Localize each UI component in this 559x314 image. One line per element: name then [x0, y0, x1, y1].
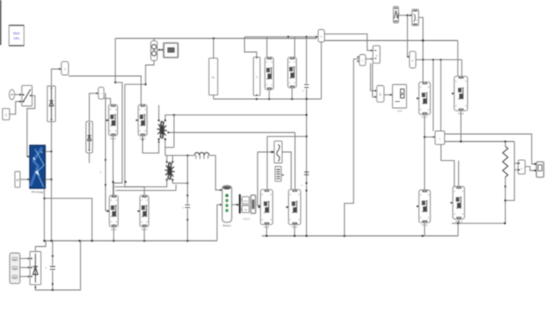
wire bus to battery minus — [217, 205, 222, 241]
wire into CS1 — [258, 151, 275, 153]
wire Q4 gate feed — [125, 187, 145, 196]
gate driver block N1 — [98, 87, 104, 99]
wire tap to comparator CMP2 — [407, 15, 409, 57]
wire K1 to switch — [10, 102, 22, 115]
transformer TR1 — [157, 121, 167, 138]
wire Q1 drain to Q3 column — [112, 136, 114, 196]
wire L1 to battery plus — [216, 155, 223, 190]
wire D1 top to measurement VM1 — [51, 69, 61, 86]
wire Q3 source to bus — [113, 227, 115, 241]
wire Q7 source to bus — [294, 225, 296, 236]
voltage measurement VM2 — [518, 160, 525, 174]
svg-text:Item: Item — [13, 32, 20, 36]
wire Q4 source to bus — [143, 227, 145, 241]
wire GL1 to scope SV1 — [384, 94, 392, 96]
comparator block CMP2 — [410, 51, 416, 68]
wire CS1 out to Q7 — [282, 152, 291, 190]
current measurement CM1 — [435, 131, 445, 144]
diode D2 block (PV branch) — [86, 121, 93, 153]
wire N1 to mosfet Q1 — [104, 98, 111, 104]
measurement block MV1 — [318, 30, 324, 43]
node gate distribution — [114, 82, 116, 84]
mosfet Q4 — [140, 195, 149, 227]
mosfet Q9 — [454, 76, 467, 110]
wire feedback x=353.6 — [344, 59, 353, 236]
wire top line left drop — [114, 38, 116, 82]
wire BR1 minus to bottom rail — [35, 241, 80, 290]
wire MV1 out upper — [325, 34, 373, 51]
wire SRC1 to scope SC1 — [157, 49, 164, 51]
svg-text:Vm: Vm — [13, 268, 16, 270]
svg-text:~: ~ — [100, 92, 102, 96]
svg-text:C: C — [256, 76, 258, 79]
wire top rail y=36.8 — [245, 36, 317, 38]
battery B1 — [222, 186, 232, 223]
wire RS1 to SUM1 — [399, 14, 413, 16]
gate logic block GL1 — [377, 86, 384, 103]
constant block K2 (temperature) — [15, 172, 20, 188]
repeating sequence block RS1 — [393, 6, 398, 23]
scope block SC1 — [164, 43, 178, 58]
wire VM2 to scope SC4 — [525, 167, 536, 171]
wire top measurement line y=38.4 — [115, 37, 316, 39]
svg-text:>: > — [376, 54, 378, 58]
wire TR2 bottom-right link — [173, 180, 188, 183]
resistor RL1 (load) — [504, 142, 506, 147]
node T-junction at DC-link branch — [213, 38, 215, 40]
scope block SV1 — [393, 85, 407, 109]
wire Q9 source down — [460, 111, 462, 142]
wire to current meas CM1 — [425, 136, 436, 138]
relational operator RO1 — [373, 46, 380, 64]
wire left DC bus (bottom rail y=240.8) — [44, 240, 217, 242]
wire demux out 1 — [241, 199, 242, 201]
wire MV1 out lower (to inverter control) — [325, 40, 458, 42]
wire Q10 source to bus — [424, 223, 426, 236]
signal source S1 (ellipse) — [9, 90, 14, 100]
wire DC to R2 top — [457, 41, 459, 77]
wire TR1 bottom-right chain — [164, 139, 166, 155]
wire S1 to switch — [15, 94, 22, 96]
wire bus rise to rail — [457, 223, 459, 236]
wire RO1 outputs down to gate driver — [371, 63, 377, 90]
svg-text:<: < — [362, 59, 364, 63]
wire DC link vertical x=306.9 — [306, 99, 308, 236]
svg-text:Vref: Vref — [397, 109, 402, 113]
svg-text:<SOC>: <SOC> — [243, 218, 251, 221]
svg-text:Vm: Vm — [13, 259, 16, 261]
scope block SC4 — [536, 162, 543, 177]
sum block SUM1 — [412, 9, 419, 25]
node at PV wire corner — [44, 198, 46, 200]
wire Q11 drain up pair — [458, 161, 460, 187]
model info block — [9, 25, 24, 46]
wire center bottom bus y=235.9 — [262, 235, 458, 237]
capacitor C3 branch — [306, 37, 308, 84]
wire load loop right — [505, 142, 514, 201]
svg-text:SOC: SOC — [243, 201, 248, 203]
wire link down to Q7 drain — [294, 133, 296, 190]
wire gate drop B — [440, 60, 442, 131]
wire SRC1 bottom drop — [146, 61, 154, 85]
branch block BR3 — [253, 57, 260, 95]
svg-text:1: 1 — [5, 113, 7, 117]
mosfet Q2 — [138, 105, 147, 136]
wire demux out 2 — [241, 209, 242, 211]
wire MV1 bottom to rail — [320, 42, 322, 99]
wire Q6 source to bus — [266, 225, 268, 236]
wire Q11 source to rail — [458, 219, 460, 223]
measurement block VM1 — [61, 62, 68, 75]
wire into N1 — [89, 93, 98, 121]
wire Q8 to Q10 column — [424, 115, 426, 191]
signal block SRC1 (on top wire) — [151, 41, 157, 61]
wire PV minus down — [43, 188, 45, 241]
mosfet Q11 — [453, 187, 465, 220]
mosfet Q8 — [419, 82, 430, 114]
wire PV to right loop — [44, 198, 92, 241]
wire BR2 bottom to rail — [213, 95, 215, 99]
wire G1 phase B to rectifier — [20, 267, 30, 269]
node bus junctions left — [43, 240, 45, 242]
capacitor C1 branch — [52, 241, 54, 265]
transformer TR2 — [165, 163, 175, 180]
wire Q2 source to TR1 (U-link) — [143, 136, 159, 153]
rectifier bridge block BR1 — [30, 252, 41, 285]
wire drain feed x=267.2 — [266, 136, 268, 189]
wire VM2 plus stub — [514, 162, 518, 164]
wire gate column x=105.5 — [105, 93, 107, 211]
wire mid link y=132.5 — [168, 132, 295, 134]
wire battery measurement out — [232, 204, 239, 206]
wire switch to PV array input Ir — [27, 96, 35, 157]
wire (document border artifact at left edge) — [0, 0, 1, 45]
pulse generator PG1 — [275, 167, 281, 182]
mosfet Q3 — [109, 195, 118, 227]
wire TR1 tap down — [173, 115, 175, 147]
mosfet Q6 — [261, 190, 273, 225]
wire right bottom rail y=223.3 — [452, 222, 505, 224]
mosfet Q5a — [265, 57, 274, 89]
wire PV outputs to DC node (vertical x=51.4) — [45, 151, 51, 153]
wire VM2 minus stub — [514, 169, 518, 171]
controlled switch block CS1 — [274, 141, 282, 163]
capacitor C2 branch — [187, 155, 189, 157]
svg-text:PV Array: PV Array — [32, 190, 44, 194]
mosfet Q7 — [289, 190, 301, 225]
wire G1 phase C to rectifier — [20, 276, 30, 278]
wire TR2 top-right stub — [172, 155, 174, 162]
svg-text:Battery: Battery — [223, 224, 232, 228]
svg-text:25: 25 — [16, 178, 20, 182]
switch SW1 — [22, 85, 32, 106]
node bus junctions center — [266, 235, 268, 237]
wire TR2 bottom-left to Q-row — [115, 180, 167, 187]
mosfet Q1 — [109, 105, 118, 136]
capacitor C4 on DC link — [304, 172, 309, 175]
svg-text:G: G — [379, 93, 381, 97]
wire CM1 out upper (to scope) — [445, 134, 537, 164]
constant block K1 — [3, 109, 10, 120]
wire SUM1 out to inverter leg — [419, 17, 423, 82]
wire TR1 secondary to DC link (y=114.9) — [165, 115, 306, 120]
wire CM1 out load line — [445, 141, 515, 143]
wire CMP2 out gate bus — [416, 59, 462, 61]
wire G1 phase A to rectifier — [20, 258, 30, 260]
wire gate feed x=257.6 — [258, 152, 261, 206]
scope block SC2 — [251, 195, 256, 213]
node PV+ junctions — [51, 151, 53, 153]
wire D2 bottom stub — [88, 153, 90, 163]
wire top rail left drop — [245, 37, 257, 57]
wire lower rail y=99 — [214, 98, 322, 100]
signal label block SOC — [242, 197, 249, 204]
node mid-column junctions — [112, 181, 114, 183]
inductor L1 line — [165, 154, 194, 156]
wire into CMP1 — [354, 58, 360, 60]
mosfet Q10 — [419, 190, 430, 223]
wire gate drop A — [432, 60, 434, 131]
wire gate drop C — [461, 60, 463, 77]
diode D1 block — [47, 86, 55, 122]
wire gate bus B — [125, 83, 146, 85]
wire Q5a bottom — [268, 90, 270, 99]
wire Q5b bottom — [291, 88, 293, 99]
signal label block Vbat — [242, 206, 249, 213]
wire K2 to PV array input T — [20, 178, 30, 180]
wire TR1 primary top up — [158, 105, 160, 120]
wire BR1 plus to DC bus — [35, 241, 45, 252]
three-phase source block G1 — [10, 253, 20, 284]
mosfet Q5b — [288, 57, 297, 88]
demux DM1 — [239, 194, 241, 213]
wire CMP1 to RO1 — [366, 58, 373, 60]
wire branch down to RLC branch — [213, 38, 215, 58]
svg-text:Vm: Vm — [13, 277, 16, 279]
wire top rail drops — [266, 37, 268, 57]
wire TR2 top-left to inductor line — [166, 155, 168, 162]
node DC link taps — [306, 114, 308, 116]
PV array block — [30, 145, 45, 188]
svg-text:<: < — [412, 59, 414, 63]
comparator block CMP1 — [359, 55, 365, 66]
series RLC branch BR2 — [209, 58, 218, 95]
svg-text:Info: Info — [14, 37, 20, 41]
wire gate bus A — [114, 82, 123, 195]
wire VM1 to bridge gate node — [69, 76, 142, 105]
wire top link y=136.4 — [267, 135, 306, 137]
wire lower gate link y=190.4 — [116, 189, 176, 191]
